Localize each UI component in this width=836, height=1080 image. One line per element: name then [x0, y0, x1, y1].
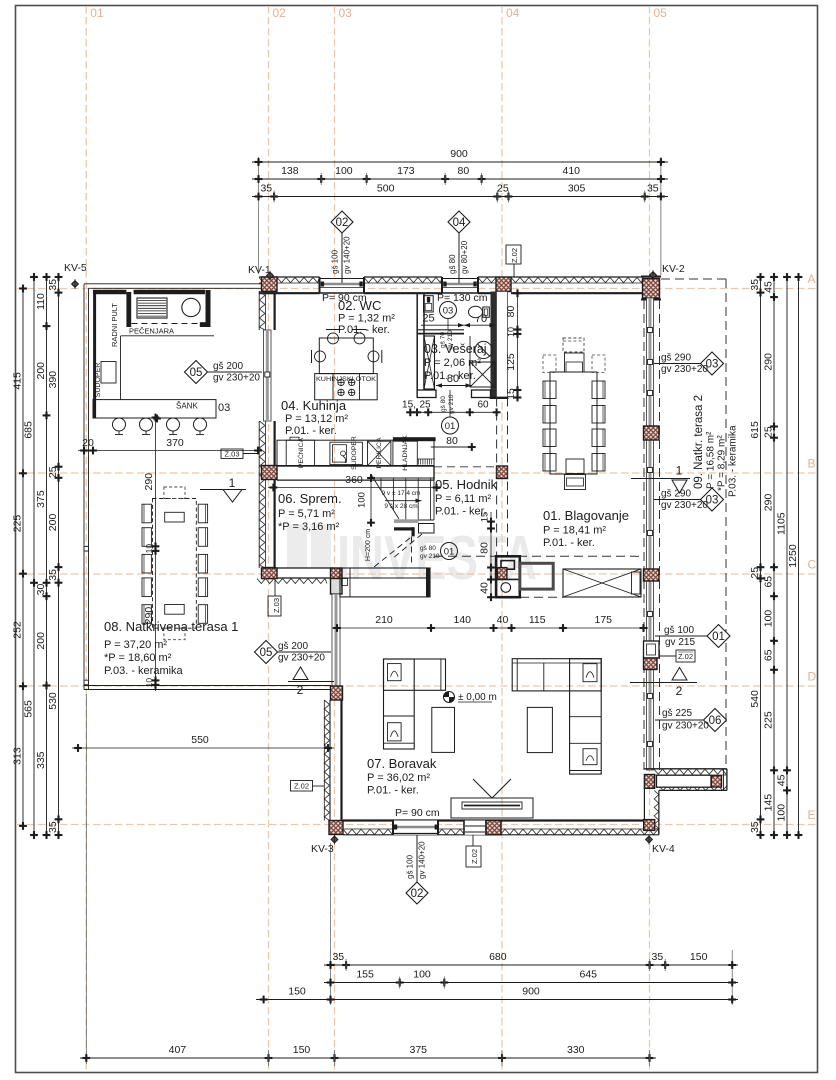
svg-text:02: 02: [273, 6, 287, 20]
svg-text:gv 140+20: gv 140+20: [418, 841, 427, 879]
svg-text:35: 35: [47, 821, 59, 833]
svg-text:25: 25: [763, 426, 775, 438]
right sofa L: [512, 659, 601, 691]
svg-text:500: 500: [377, 183, 395, 195]
svg-text:100: 100: [357, 492, 368, 508]
svg-text:140: 140: [453, 614, 471, 626]
dim row 900: [252, 161, 668, 163]
dim 80 kitchen: [431, 446, 472, 448]
svg-text:35: 35: [47, 279, 59, 291]
svg-text:KV-2: KV-2: [662, 263, 685, 275]
bottom chair: [565, 475, 586, 490]
svg-text:gš 80: gš 80: [440, 396, 447, 412]
svg-text:125: 125: [505, 353, 517, 371]
east glass wall blagovanje/boravak: [647, 298, 654, 426]
svg-text:± 0,00 m: ± 0,00 m: [458, 692, 497, 703]
door circle 01 kitchen: [449, 390, 451, 417]
burners: [338, 379, 344, 385]
svg-text:115: 115: [529, 614, 546, 626]
svg-text:01: 01: [712, 631, 725, 643]
marker 02 bottom: [416, 835, 418, 883]
svg-text:RADNI PULT: RADNI PULT: [110, 303, 119, 347]
svg-text:05: 05: [260, 647, 273, 659]
svg-text:01. Blagovanje: 01. Blagovanje: [543, 508, 629, 523]
door opening south wall: [464, 821, 486, 835]
north wall segment window2-pillar04: [478, 276, 496, 278]
pillar KV-3: [329, 821, 343, 835]
outdoor kitchen left counter edge: [93, 291, 96, 418]
svg-text:360: 360: [345, 474, 363, 486]
svg-text:P = 18,41 m²: P = 18,41 m²: [543, 525, 606, 537]
svg-text:407: 407: [169, 1044, 187, 1056]
svg-text:08. Natkrivena terasa 1: 08. Natkrivena terasa 1: [104, 619, 238, 634]
svg-text:04: 04: [453, 217, 466, 229]
svg-text:645: 645: [579, 969, 597, 981]
wall kitchen-WC (x~417-424): [416, 293, 418, 397]
svg-text:*P = 8,29 m²: *P = 8,29 m²: [717, 435, 728, 491]
door circle 01 stairs: [441, 543, 458, 560]
svg-text:9 v ± 17,4 cm: 9 v ± 17,4 cm: [382, 490, 421, 497]
pillar kitchen south wall (axis 02): [262, 466, 278, 480]
washing machine veseraj: [475, 341, 492, 358]
svg-text:gv 230+20: gv 230+20: [661, 500, 708, 511]
marker 05 outdoor glass: [207, 371, 262, 373]
marker Z.03 vertical: [274, 578, 276, 596]
left chain 685/565: [33, 273, 35, 839]
svg-text:110: 110: [35, 293, 47, 310]
bottom head chair inside table: [566, 459, 584, 474]
veseraj south wall y 390-397: [417, 390, 436, 398]
svg-text:P = 6,11 m²: P = 6,11 m²: [435, 493, 491, 505]
svg-text:gš 80: gš 80: [448, 254, 457, 274]
pillar west wall at axis B: [263, 466, 275, 479]
bbq sink circle: [182, 298, 200, 316]
svg-text:20: 20: [82, 437, 94, 449]
freestanding pillar axis 04/B: [497, 466, 508, 479]
svg-text:210: 210: [375, 614, 393, 626]
coffee table right: [527, 707, 552, 752]
svg-text:P.01. - ker.: P.01. - ker.: [285, 425, 337, 437]
svg-text:P.03. - keramika: P.03. - keramika: [728, 425, 739, 497]
sliding glass door west (gs 200): [264, 330, 272, 421]
svg-text:gš 100: gš 100: [664, 625, 694, 636]
kitchen south wall y 465-480: [277, 465, 434, 467]
cabinet south blagovanje: [563, 569, 641, 597]
svg-text:01: 01: [444, 547, 455, 558]
svg-text:P = 2,06 m²: P = 2,06 m²: [424, 357, 481, 369]
svg-text:100: 100: [776, 804, 788, 822]
svg-text:SUDOPER: SUDOPER: [351, 436, 358, 470]
wardrobe north boravak: [340, 568, 430, 597]
svg-text:gš 200: gš 200: [278, 641, 308, 652]
svg-text:290: 290: [763, 494, 775, 512]
svg-text:375: 375: [35, 490, 47, 508]
svg-text:Z.02: Z.02: [678, 652, 693, 661]
svg-text:E: E: [808, 808, 816, 822]
section 2 left: [288, 681, 334, 683]
svg-text:gv 230+20: gv 230+20: [278, 653, 325, 664]
svg-text:175: 175: [594, 614, 612, 626]
svg-text:290: 290: [763, 353, 775, 371]
window P=130 north (WC): [442, 277, 478, 294]
marker Z.02 west wall boravak: [291, 781, 313, 792]
svg-text:gš 80: gš 80: [420, 545, 436, 552]
south wall living room: [343, 819, 644, 821]
svg-text:*P = 3,16 m²: *P = 3,16 m²: [278, 521, 340, 533]
left chain 415/225/252/313: [22, 285, 24, 830]
svg-text:P = 36,02 m²: P = 36,02 m²: [367, 772, 430, 784]
wall WC-Veseraj (y~329-334): [418, 329, 464, 331]
marker Z.02 bottom: [472, 835, 474, 846]
svg-text:P.01. - ker.: P.01. - ker.: [424, 370, 476, 382]
dim 20/370: [78, 450, 262, 452]
svg-text:305: 305: [568, 183, 586, 195]
svg-text:PEĆNICA: PEĆNICA: [296, 437, 305, 468]
svg-text:ŠANK: ŠANK: [176, 402, 198, 411]
svg-text:*P = 18,60 m²: *P = 18,60 m²: [104, 652, 172, 664]
svg-text:10: 10: [144, 678, 154, 688]
grill: [137, 298, 167, 318]
svg-text:290: 290: [143, 473, 155, 491]
terrace 1 boundary: [83, 284, 85, 690]
svg-text:KV-3: KV-3: [311, 843, 334, 855]
svg-text:200: 200: [47, 514, 59, 532]
window P=90 north (kitchen): [320, 277, 365, 294]
window P=90 south: [393, 821, 438, 835]
pillar KV-2 (axis 05): [643, 279, 660, 299]
svg-text:P.01. - ker.: P.01. - ker.: [543, 537, 595, 549]
pillar axis 04: [496, 277, 511, 292]
north wall segment pillar04-KV2: [511, 276, 643, 278]
svg-text:gv 140+20: gv 140+20: [343, 236, 352, 274]
svg-text:60: 60: [477, 400, 489, 411]
west wall of house lower (sprem): [258, 421, 260, 568]
entrance assembly: [496, 556, 520, 597]
svg-text:80: 80: [458, 165, 470, 177]
marker 05 living west glass: [277, 651, 331, 653]
watermark: [287, 524, 307, 576]
svg-text:415: 415: [12, 372, 24, 390]
svg-text:45: 45: [776, 774, 788, 786]
svg-text:25: 25: [422, 313, 434, 325]
head chair dashed top: [563, 338, 584, 352]
north wall segment KV1 to window1: [259, 276, 320, 278]
svg-text:gš 290: gš 290: [661, 489, 691, 500]
canopy dashed lines hodnik: [496, 398, 498, 556]
svg-text:P = 16,58 m²: P = 16,58 m²: [706, 431, 717, 489]
svg-text:40: 40: [479, 582, 491, 594]
pillar KV-1 (axis 02): [262, 277, 278, 292]
svg-text:313: 313: [12, 747, 24, 765]
coffee table left: [432, 707, 455, 752]
marker Z.02 top: [513, 264, 515, 277]
dishwasher: [368, 441, 391, 465]
svg-text:B: B: [808, 457, 816, 471]
svg-text:P.01. - ker.: P.01. - ker.: [338, 324, 390, 336]
sprem south wall y 568-578: [263, 568, 333, 578]
svg-text:HLADNJAK: HLADNJAK: [402, 435, 409, 471]
bar stools: [113, 418, 126, 431]
svg-text:685: 685: [23, 421, 35, 439]
svg-text:06: 06: [709, 715, 722, 727]
svg-text:gv 80+20: gv 80+20: [460, 240, 469, 274]
svg-text:PEČENJARA: PEČENJARA: [129, 327, 174, 336]
marker 03 east 2: [654, 499, 701, 501]
wc sink: [424, 296, 434, 312]
svg-text:H=200 cm: H=200 cm: [365, 529, 372, 561]
sank bar: [93, 400, 216, 418]
window niche east (gs100 gv215): [644, 641, 660, 658]
svg-text:2: 2: [297, 683, 304, 697]
pillar south wall (axis 04): [486, 821, 501, 835]
pillar terrace2 west: [644, 775, 654, 789]
svg-text:D: D: [808, 670, 817, 684]
grid axis C: [16, 573, 817, 575]
svg-text:gv 230+20: gv 230+20: [662, 721, 709, 732]
svg-text:65: 65: [763, 649, 775, 661]
svg-text:gv 215: gv 215: [665, 637, 695, 648]
wall WC-Blagovanje east (x 490-508): [491, 292, 497, 398]
svg-text:gv 210: gv 210: [420, 553, 440, 560]
svg-text:1105: 1105: [776, 512, 788, 535]
grid axis B: [16, 472, 817, 474]
stair break line: [371, 475, 399, 520]
svg-text:1: 1: [229, 476, 236, 490]
svg-text:25: 25: [749, 567, 761, 579]
window in terrace2 wall: [657, 775, 712, 787]
left sofa L: [384, 659, 446, 690]
svg-text:04. Kuhinja: 04. Kuhinja: [281, 398, 347, 413]
svg-text:370: 370: [166, 437, 184, 449]
svg-text:Z.03: Z.03: [272, 598, 281, 613]
svg-text:05: 05: [654, 6, 668, 20]
pillar east wall 1: [644, 426, 660, 440]
svg-text:9 š x 28 cm: 9 š x 28 cm: [384, 503, 417, 510]
svg-text:PERILICA: PERILICA: [376, 437, 383, 468]
svg-text:15: 15: [505, 388, 517, 400]
svg-text:P = 13,12 m²: P = 13,12 m²: [285, 413, 348, 425]
side chairs: [543, 381, 556, 399]
dim chain 80/10/125/15 blagovanje: [517, 291, 519, 401]
svg-text:KUHINJSKI OTOK: KUHINJSKI OTOK: [316, 376, 377, 383]
left chain 35/390/25/200/35/530/35: [58, 273, 60, 839]
pillar east wall 2 (SE blagovanje): [644, 569, 660, 581]
oven: [286, 440, 314, 465]
BBQ counter: [93, 290, 126, 294]
fridge: [393, 437, 436, 441]
pillar KV-4: [644, 820, 655, 831]
svg-text:1250: 1250: [787, 544, 799, 568]
svg-text:200: 200: [35, 362, 47, 380]
svg-text:252: 252: [12, 621, 24, 639]
svg-text:80: 80: [446, 435, 458, 447]
svg-text:P = 1,32 m²: P = 1,32 m²: [338, 313, 395, 325]
svg-text:gv 210: gv 210: [448, 394, 455, 414]
dashed opening kitchen-hall: [434, 466, 497, 468]
side chairs dashed: [543, 355, 556, 373]
island chairs: [328, 333, 339, 344]
svg-text:35: 35: [47, 569, 59, 581]
terrace 2 dashed boundary: [661, 278, 726, 280]
marker 02 top: [341, 232, 343, 283]
svg-text:30: 30: [35, 584, 47, 596]
svg-text:P = 5,71 m²: P = 5,71 m²: [278, 508, 335, 520]
svg-text:gš 100: gš 100: [331, 249, 340, 274]
svg-text:225: 225: [12, 515, 24, 533]
svg-text:gš 290: gš 290: [661, 353, 691, 364]
svg-text:100: 100: [413, 969, 431, 981]
west wall hatched lower: [329, 700, 331, 821]
svg-text:565: 565: [23, 700, 35, 718]
dim 290/10/290/10 vertical: [155, 418, 157, 692]
terrace2 south wall (protruding): [644, 768, 727, 770]
svg-text:Z.02: Z.02: [294, 782, 309, 791]
svg-text:35: 35: [332, 951, 344, 963]
svg-text:gš 200: gš 200: [213, 361, 243, 372]
section 1 left: [200, 489, 246, 491]
left chain 110/200/375/30/200/335: [46, 273, 48, 839]
svg-text:225: 225: [763, 711, 775, 729]
stair walk arrow: [385, 500, 422, 502]
door mat: [520, 563, 553, 589]
east wall below terrace wall: [643, 788, 645, 820]
svg-text:150: 150: [288, 986, 306, 998]
west glass door living (gs 200): [332, 594, 340, 686]
svg-text:SUDOPER: SUDOPER: [95, 363, 102, 398]
dim row 155/100/645: [324, 982, 738, 984]
svg-text:03: 03: [339, 6, 353, 20]
marker 06 east boravak: [655, 719, 704, 721]
svg-text:Z.02: Z.02: [510, 248, 519, 263]
kitchen island: [319, 338, 373, 374]
door circle 03 WC: [440, 302, 457, 319]
svg-text:680: 680: [489, 951, 507, 963]
grid axis A: [16, 288, 817, 290]
svg-text:A: A: [808, 272, 816, 286]
dim row 210/140/40/115/175: [332, 627, 648, 629]
svg-text:1: 1: [676, 464, 683, 478]
section 1 right: [631, 478, 690, 480]
dim 360: [268, 487, 440, 489]
svg-text:900: 900: [450, 148, 468, 160]
shelf comb: [418, 459, 420, 465]
island counter: [315, 374, 378, 400]
dim 550: [72, 747, 334, 749]
grid axis 04: [501, 6, 503, 1072]
svg-text:150: 150: [690, 951, 708, 963]
svg-text:04: 04: [506, 6, 520, 20]
svg-text:01: 01: [445, 421, 456, 432]
svg-text:145: 145: [763, 794, 775, 812]
svg-text:35: 35: [749, 821, 761, 833]
marker Z.02 right: [659, 655, 676, 657]
level mark +-0.00: [444, 692, 455, 703]
svg-text:40: 40: [497, 614, 509, 626]
svg-text:P.03. - keramika: P.03. - keramika: [104, 665, 184, 677]
sink unit: [330, 442, 363, 464]
dim 70 wc arrow: [421, 324, 495, 326]
dim row 138/100/173/80/410: [252, 178, 668, 180]
svg-text:35: 35: [652, 951, 664, 963]
dim chain 15/80/40 entrance: [490, 512, 492, 601]
svg-text:P.01. - ker.: P.01. - ker.: [435, 506, 487, 518]
svg-text:03. Vešeraj: 03. Vešeraj: [424, 342, 487, 356]
section 2 right: [630, 682, 697, 684]
stair landing: [394, 519, 419, 523]
svg-text:P = 37,20 m²: P = 37,20 m²: [104, 639, 167, 651]
grid axis 05: [649, 6, 651, 1072]
svg-text:09. Natkr. terasa 2: 09. Natkr. terasa 2: [693, 395, 705, 489]
svg-text:335: 335: [35, 751, 47, 769]
svg-text:330: 330: [567, 1044, 585, 1056]
svg-text:03: 03: [218, 402, 230, 414]
svg-text:615: 615: [749, 421, 761, 439]
svg-text:80: 80: [479, 542, 491, 554]
svg-text:540: 540: [749, 690, 761, 708]
canopy dash over entrance: [434, 555, 643, 557]
right chain 1250: [798, 273, 800, 839]
svg-text:200: 200: [35, 632, 47, 650]
svg-text:07. Boravak: 07. Boravak: [367, 756, 437, 771]
svg-text:Z.02: Z.02: [470, 849, 479, 864]
svg-text:25: 25: [497, 183, 509, 195]
sudoper sink: [101, 362, 116, 384]
kitchen counter: [277, 440, 434, 466]
pillar west wall sprem south: [263, 568, 275, 579]
svg-text:390: 390: [47, 371, 59, 389]
svg-text:KV-4: KV-4: [652, 843, 675, 855]
marker 03 east 1: [654, 363, 701, 365]
svg-text:gš 225: gš 225: [662, 708, 692, 719]
dining table: [550, 372, 597, 474]
north wall segment window1-window2: [364, 276, 442, 278]
svg-text:530: 530: [47, 692, 59, 710]
svg-text:02: 02: [411, 888, 424, 900]
svg-text:100: 100: [763, 610, 775, 628]
svg-text:80: 80: [505, 306, 517, 318]
svg-text:01: 01: [90, 6, 104, 20]
dim 15/25/60 row: [406, 411, 500, 413]
west wall living room: [331, 568, 343, 579]
svg-text:45: 45: [763, 281, 775, 293]
dim row 35/680/35/150: [324, 964, 738, 966]
grid axis 01: [85, 6, 87, 1072]
outdoor dining table (dashed): [153, 499, 197, 629]
svg-text:35: 35: [749, 279, 761, 291]
svg-text:35: 35: [647, 183, 659, 195]
svg-text:15,: 15,: [402, 400, 416, 411]
svg-text:P.01. - ker.: P.01. - ker.: [367, 785, 419, 797]
svg-text:173: 173: [397, 165, 415, 177]
understairs dashed: [374, 538, 410, 567]
west wall of house upper: [258, 291, 260, 330]
svg-text:10: 10: [506, 327, 516, 337]
svg-text:02: 02: [336, 217, 349, 229]
pillar terrace2 east (small): [711, 776, 721, 787]
marker Z.03 horizontal: [221, 449, 243, 459]
right chain 1105/45/100: [786, 273, 788, 839]
dim row 35/500/25/305/35: [252, 196, 668, 198]
svg-text:05. Hodnik: 05. Hodnik: [435, 477, 498, 492]
dim row 150/900: [256, 999, 738, 1001]
svg-text:150: 150: [293, 1044, 311, 1056]
svg-text:Z.03: Z.03: [224, 450, 239, 459]
svg-text:65: 65: [763, 576, 775, 588]
dim 80 veseraj arrow: [436, 385, 472, 387]
svg-text:KV-5: KV-5: [64, 262, 87, 274]
TV: [451, 798, 533, 818]
right chain 45/290/25/290/65/100/65/225/145: [773, 273, 775, 839]
